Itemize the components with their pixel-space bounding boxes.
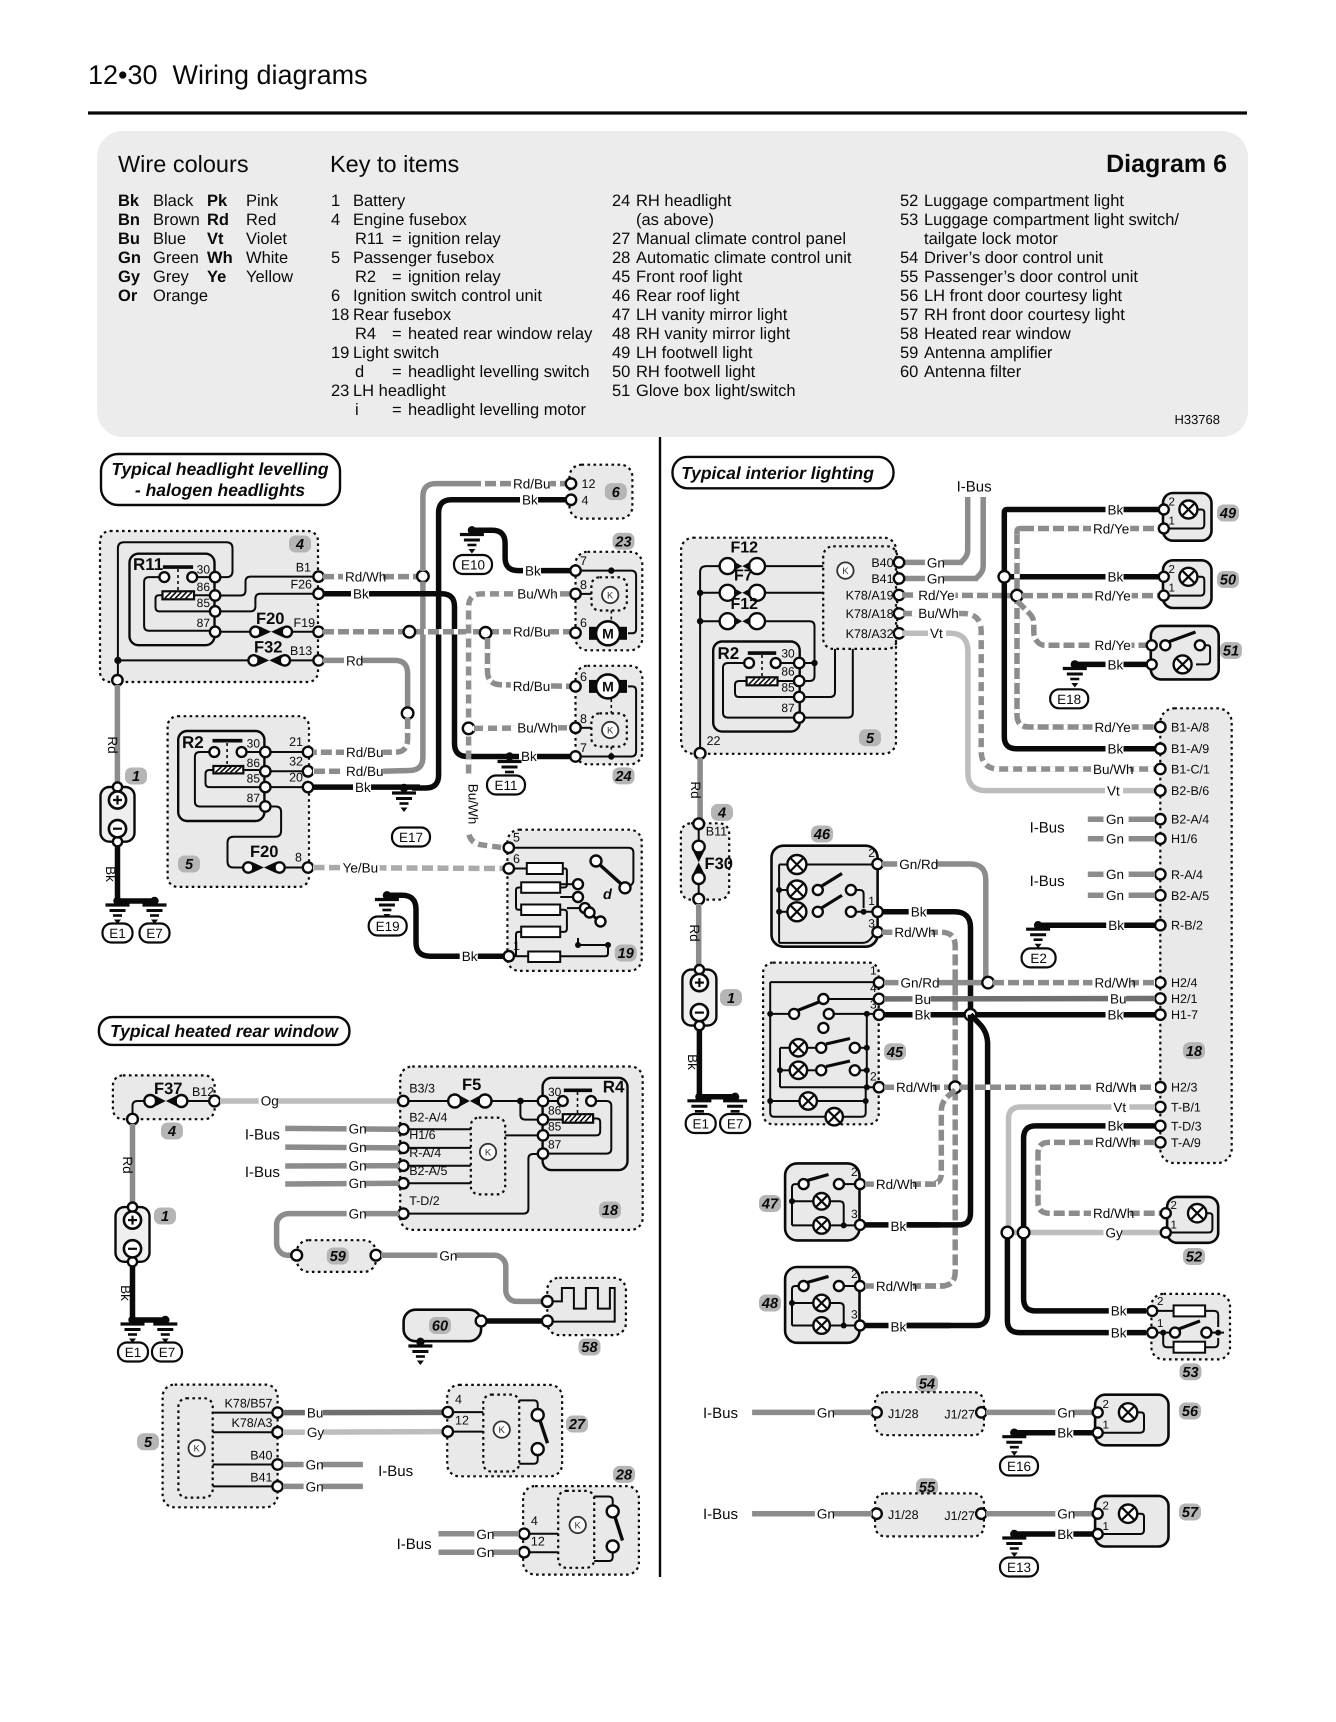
wire B3/3 to F5 <box>408 1100 448 1102</box>
RH vanity mirror light 48 <box>785 1267 859 1343</box>
svg-text:Gn: Gn <box>1106 888 1124 903</box>
label Rd/Ye 49 <box>1091 521 1130 537</box>
svg-text:E11: E11 <box>494 778 517 793</box>
ground bar il <box>695 1093 739 1101</box>
svg-text:Bu: Bu <box>915 992 932 1007</box>
svg-text:F32: F32 <box>254 639 282 657</box>
ground link bar <box>113 897 158 905</box>
wire Gn B2-A/5 <box>285 1181 399 1187</box>
svg-text:4: 4 <box>167 1124 176 1140</box>
badge 57 <box>1179 1504 1201 1522</box>
wire Bk TD3 trunk <box>1024 1126 1155 1228</box>
label Rd il 2 <box>687 924 702 941</box>
pin T-D/2 <box>398 1194 440 1219</box>
pin 8 <box>303 862 313 872</box>
svg-text:E17: E17 <box>399 830 423 845</box>
courtesy light 56 <box>1095 1395 1168 1446</box>
svg-text:Pk: Pk <box>207 192 228 210</box>
roof 45 rail <box>767 982 773 1104</box>
wire pin87 to F20 <box>219 631 250 633</box>
wire F20b to pin 8 <box>285 867 303 869</box>
svg-text:LH footwell light: LH footwell light <box>636 344 753 362</box>
wire Gn H1/6 <box>285 1144 399 1150</box>
svg-text:E7: E7 <box>159 1345 176 1360</box>
svg-text:5: 5 <box>185 857 194 873</box>
53 resistor bottom <box>1163 1333 1218 1353</box>
relay R2 contact terminals <box>209 747 246 757</box>
wire 28 pin4 to K <box>528 1533 558 1535</box>
legend heading wire colours <box>118 151 249 177</box>
svg-text:Typical heated rear window: Typical heated rear window <box>110 1021 339 1041</box>
svg-text:LH front door courtesy light: LH front door courtesy light <box>924 287 1123 305</box>
svg-text:White: White <box>246 249 288 267</box>
wire Rd/Bu into pin 32 <box>313 769 385 775</box>
svg-text:3: 3 <box>851 1308 858 1322</box>
wire B2-A/5 line <box>408 1182 471 1184</box>
svg-text:28: 28 <box>615 1468 633 1484</box>
label Gn 55 out <box>1055 1507 1075 1523</box>
svg-text:Gn: Gn <box>817 1507 835 1522</box>
svg-text:5: 5 <box>513 831 520 845</box>
roof 45 floating contact <box>818 1023 828 1033</box>
badge 54 <box>916 1375 938 1393</box>
svg-text:2: 2 <box>1169 497 1175 509</box>
label Rd <box>344 653 363 669</box>
switch 47 <box>789 1175 856 1226</box>
pin 2 46 <box>868 846 883 869</box>
svg-text:4: 4 <box>582 493 589 507</box>
roof 45 mid contact <box>824 1009 873 1019</box>
pin 2 52 <box>1161 1200 1177 1218</box>
svg-text:87: 87 <box>548 1138 562 1152</box>
wire Rd/Ye row <box>902 592 1010 598</box>
svg-text:2: 2 <box>868 846 875 860</box>
pin 2 53 <box>1147 1296 1163 1316</box>
pin 1 56 <box>1093 1420 1109 1438</box>
svg-text:ignition relay: ignition relay <box>408 268 501 286</box>
badge 48 <box>759 1295 781 1313</box>
light switch 19 <box>507 830 641 971</box>
svg-text:2: 2 <box>851 1267 858 1281</box>
badge 58 <box>579 1339 601 1357</box>
svg-text:B2-B/6: B2-B/6 <box>1171 784 1209 798</box>
wire R2-87 to fuse F20b <box>228 807 282 868</box>
key column 2 <box>612 192 852 400</box>
label Bk vertical <box>103 866 118 882</box>
svg-text:Bk: Bk <box>353 587 369 602</box>
wire RdYe trunk <box>1017 533 1155 727</box>
wire Bk trunk BK1 low <box>900 1015 971 1225</box>
K module 27 <box>483 1395 519 1472</box>
relay R2 il contact bar <box>748 651 776 655</box>
wire K to K78/B57 <box>213 1412 273 1414</box>
label Gn 54 in <box>815 1405 835 1421</box>
luggage light switch 53 <box>1151 1294 1230 1360</box>
lamp 52 <box>1188 1204 1206 1222</box>
junction RdYe 50 <box>1011 590 1023 602</box>
wire Gn/Rd 45 pin1 <box>884 980 983 986</box>
ground symbol E7 <box>143 905 167 924</box>
K module 28 <box>558 1491 594 1568</box>
pin B41 hrw <box>250 1470 283 1491</box>
label Bu/Wh B1C1 <box>1091 762 1134 778</box>
wire colour table <box>118 192 293 305</box>
label I-Bus mid2 <box>1030 873 1065 890</box>
label Gn 28-4 <box>474 1527 494 1543</box>
pin R-B/2 <box>1155 919 1203 933</box>
badge 60 <box>429 1317 451 1335</box>
svg-text:I-Bus: I-Bus <box>957 479 992 496</box>
wire 27 pin4 to K <box>452 1411 483 1413</box>
relay R4 box <box>543 1077 628 1170</box>
light switch resistor 3 <box>521 905 560 916</box>
ground dot E18 <box>1071 660 1079 668</box>
pin K78/A18 <box>846 607 905 621</box>
pin B1-C/1 <box>1155 763 1210 777</box>
svg-text:2: 2 <box>1103 1399 1109 1411</box>
pin K78/B57 <box>225 1397 283 1418</box>
ignition switch control unit 6 <box>570 465 633 519</box>
svg-text:I-Bus: I-Bus <box>1030 819 1065 836</box>
label Gn 4 <box>347 1176 367 1192</box>
connector Vt-Gy <box>1002 1227 1014 1239</box>
rear fusebox 18 il <box>1160 708 1231 1163</box>
svg-text:LH vanity mirror light: LH vanity mirror light <box>636 306 788 324</box>
svg-text:Rd: Rd <box>120 1156 135 1173</box>
wire Bk trunk49 <box>1004 515 1155 749</box>
svg-text:H2/3: H2/3 <box>1171 1081 1197 1095</box>
svg-text:B13: B13 <box>290 644 312 658</box>
svg-text:4: 4 <box>531 1514 538 1528</box>
badge 45 <box>884 1043 906 1061</box>
svg-text:6: 6 <box>612 485 621 501</box>
label Gn 3 <box>347 1159 367 1175</box>
RH headlight 24 <box>576 666 643 765</box>
label Rd il <box>688 781 703 798</box>
svg-text:RH front door courtesy light: RH front door courtesy light <box>924 306 1125 324</box>
battery 1 hrw <box>116 1203 150 1267</box>
wire Bk E10 to box23 pin7 <box>472 530 570 570</box>
wire K to B41 <box>213 1485 273 1487</box>
badge 46 <box>811 826 833 844</box>
svg-text:B41: B41 <box>250 1470 272 1484</box>
svg-text:I-Bus: I-Bus <box>397 1536 432 1553</box>
pin 7 hl23 <box>570 554 587 576</box>
wire Rd hrw <box>130 1124 136 1205</box>
label Rd/Ye 50 <box>1093 589 1132 605</box>
svg-text:Key to items: Key to items <box>330 151 459 177</box>
pin 7 hl24 <box>570 741 587 762</box>
label Bk 53-1 <box>1109 1326 1127 1342</box>
svg-text:Violet: Violet <box>246 230 287 248</box>
wire Rd/Bu F19 to box23 pin6 <box>323 629 570 635</box>
svg-text:Vt: Vt <box>930 626 943 641</box>
relay R2 il pin 86 <box>781 665 804 687</box>
svg-text:56: 56 <box>900 287 918 305</box>
label Bu/Wh 24-8 <box>515 721 558 737</box>
svg-text:Front roof light: Front roof light <box>636 268 743 286</box>
svg-text:18: 18 <box>331 306 349 324</box>
label I-Bus mid1 <box>1030 819 1065 836</box>
svg-text:Rd: Rd <box>688 781 703 798</box>
svg-text:Gn: Gn <box>349 1159 367 1174</box>
badge 53 <box>1180 1363 1202 1381</box>
svg-text:K: K <box>607 726 614 737</box>
svg-text:J1/28: J1/28 <box>888 1508 919 1522</box>
badge 23 <box>613 533 635 551</box>
svg-text:d: d <box>355 363 364 381</box>
svg-text:Gn: Gn <box>349 1206 367 1221</box>
svg-text:RH vanity mirror light: RH vanity mirror light <box>636 325 790 343</box>
svg-text:Ignition switch control unit: Ignition switch control unit <box>353 287 542 305</box>
svg-text:6: 6 <box>580 616 587 630</box>
badge 1 battery <box>125 768 147 786</box>
relay R2 contact bar <box>213 739 243 743</box>
wire Bk battery to ground <box>115 846 121 901</box>
junction Bk45 <box>965 1009 977 1021</box>
label Gn T-D/2 <box>347 1206 367 1222</box>
wire Rd battery feed <box>115 685 121 787</box>
label Vt K78 <box>928 626 946 642</box>
label Gn/Rd 46 <box>897 857 938 873</box>
antenna amplifier 59 <box>297 1240 376 1272</box>
badge 18 hrw <box>599 1202 621 1220</box>
light switch contacts <box>573 879 590 913</box>
pin B40 il <box>871 556 904 570</box>
roof 45 lampB <box>790 1061 867 1079</box>
wire Bk trunk BK2 <box>905 1015 988 1326</box>
wire Rd B13 to hook <box>323 660 408 708</box>
svg-text:Rd/Ye: Rd/Ye <box>1095 720 1131 735</box>
svg-text:Bk: Bk <box>462 949 478 964</box>
relay R2 pin 86 <box>247 756 271 777</box>
svg-text:Gn: Gn <box>306 1479 324 1494</box>
svg-text:Bk: Bk <box>1108 742 1124 757</box>
roof 46 lamps <box>787 855 806 921</box>
svg-text:F5: F5 <box>462 1076 481 1094</box>
pin F19 <box>313 627 323 637</box>
wire Gn 55 out <box>986 1511 1093 1517</box>
label Bk 20 <box>353 780 371 796</box>
svg-text:B1-A/8: B1-A/8 <box>1171 721 1209 735</box>
wire pin85 to F26 <box>219 594 314 612</box>
svg-text:Gn: Gn <box>817 1405 835 1420</box>
svg-text:Bk: Bk <box>525 564 541 579</box>
wire F20 to F19 pin <box>292 631 314 633</box>
lamp 57 <box>1119 1505 1137 1523</box>
fuse F5 <box>448 1076 491 1108</box>
svg-text:B41: B41 <box>871 572 893 586</box>
svg-text:E2: E2 <box>1030 951 1047 966</box>
badge E7 <box>140 924 170 943</box>
wire Vt TB1 <box>1009 1107 1156 1228</box>
svg-text:Rd/Ye: Rd/Ye <box>1095 589 1131 604</box>
relay R4 coil <box>563 1114 593 1123</box>
passenger fusebox 5 <box>168 716 309 887</box>
badge 28 <box>613 1466 635 1484</box>
wire Gn 54 in <box>752 1410 872 1416</box>
wire Gn/Rd 46 <box>882 864 986 980</box>
pin H2/1 <box>1155 992 1197 1006</box>
label Bk RB2 <box>1106 918 1124 934</box>
svg-text:2: 2 <box>870 1070 877 1084</box>
svg-text:53: 53 <box>1182 1365 1198 1381</box>
svg-text:Ye/Bu: Ye/Bu <box>343 861 379 876</box>
pin 20 <box>289 771 313 793</box>
label Rd/Bu 32 <box>344 764 384 780</box>
svg-text:Bu: Bu <box>1110 991 1127 1006</box>
svg-text:H1-7: H1-7 <box>1171 1008 1198 1022</box>
pin 2 45 <box>870 1070 884 1093</box>
svg-text:=: = <box>392 325 402 343</box>
svg-text:Gn: Gn <box>927 571 945 586</box>
relay R2 pin 30 <box>247 737 271 758</box>
relay R4 contact dashes <box>577 1092 579 1114</box>
pin 58 bottom <box>542 1316 553 1327</box>
wire Rd/Wh 46 <box>882 932 955 1286</box>
svg-text:86: 86 <box>197 580 211 594</box>
svg-text:4: 4 <box>870 981 877 995</box>
driver door control unit 54 <box>875 1392 984 1435</box>
svg-text:46: 46 <box>612 287 630 305</box>
pin B41 il <box>871 572 904 586</box>
svg-text:Vt: Vt <box>207 230 224 248</box>
label I-Bus 27 <box>378 1463 413 1480</box>
badge E17 <box>392 828 430 847</box>
relay R4 internal wiring <box>548 1101 611 1154</box>
badge E19 <box>369 917 407 936</box>
relay R11 pin 87 <box>197 616 221 637</box>
label Gn 28-12 <box>474 1545 494 1561</box>
relay R11 contact bar <box>163 565 193 569</box>
svg-text:Bk: Bk <box>118 1285 133 1301</box>
svg-text:Ye: Ye <box>207 268 226 286</box>
wire F5 branch to 86 <box>520 1101 538 1120</box>
relay R2 pin 87 <box>247 791 271 812</box>
pin 4 cc27 <box>443 1392 462 1417</box>
svg-text:45: 45 <box>886 1045 904 1061</box>
pin 4 cc28 <box>519 1514 538 1539</box>
svg-text:60: 60 <box>900 363 918 381</box>
pin T-A/9 <box>1155 1136 1201 1150</box>
relay R2 il terminals <box>744 658 780 668</box>
label Rd/Bu ign <box>511 476 551 492</box>
light switch resistor 4 <box>521 927 560 938</box>
svg-text:24: 24 <box>614 769 631 785</box>
ground symbol E16 <box>1002 1437 1026 1456</box>
svg-text:5: 5 <box>866 731 875 747</box>
label Rd/Bu 21 <box>344 745 384 761</box>
wire Rd riser to ign unit <box>423 484 470 571</box>
svg-text:Gn: Gn <box>349 1140 367 1155</box>
relay R11 contact terminals <box>159 572 197 582</box>
wire feed to F32 <box>118 659 249 661</box>
battery 1 <box>101 782 135 846</box>
badge 5 passenger fusebox <box>178 856 200 874</box>
svg-text:47: 47 <box>761 1197 779 1213</box>
fuse F30 <box>693 828 733 895</box>
svg-text:Passenger fusebox: Passenger fusebox <box>353 249 495 267</box>
wire Rd/Bu into pin 12 <box>470 481 566 487</box>
pin 2 50 <box>1159 564 1175 582</box>
svg-text:Gn: Gn <box>1057 1405 1075 1420</box>
svg-text:Bu: Bu <box>118 230 140 248</box>
svg-text:Gn/Rd: Gn/Rd <box>901 976 940 991</box>
lamp 51 <box>1174 655 1192 673</box>
label I-Bus top <box>957 479 992 496</box>
junction RdBu col1 <box>404 626 416 638</box>
wire R2-30 to pin 21 <box>270 751 303 753</box>
svg-text:52: 52 <box>1186 1250 1202 1266</box>
automatic climate control unit 28 <box>523 1486 639 1575</box>
label Gy 27 <box>305 1425 325 1441</box>
relay R2 il pin 87 <box>781 701 804 723</box>
svg-text:28: 28 <box>612 249 630 267</box>
wire Gn stub 1 <box>1088 812 1155 828</box>
relay R2 pin 85 <box>247 772 271 793</box>
connector B11 <box>693 818 727 838</box>
svg-text:19: 19 <box>618 946 634 962</box>
svg-text:Gn: Gn <box>1057 1507 1075 1522</box>
label Gn 54 out <box>1055 1405 1075 1421</box>
svg-text:Rd/Ye: Rd/Ye <box>1095 638 1131 653</box>
svg-text:R2: R2 <box>182 733 204 752</box>
label Bk 24-7 <box>519 749 537 765</box>
wire Rd il 2 <box>696 904 702 968</box>
svg-text:Gy: Gy <box>307 1425 325 1440</box>
svg-text:Automatic climate control unit: Automatic climate control unit <box>636 249 852 267</box>
ground symbol E17 <box>392 793 416 812</box>
svg-text:50: 50 <box>612 363 630 381</box>
pin B3/3 <box>398 1081 435 1106</box>
label Gn/Rd 45 <box>899 976 940 992</box>
wire F37 left elbow <box>133 1101 145 1115</box>
svg-text:30: 30 <box>197 563 211 577</box>
svg-text:6: 6 <box>513 852 520 866</box>
svg-text:Bk: Bk <box>1108 657 1124 672</box>
badge 59 <box>327 1248 349 1266</box>
53 resistor top <box>1157 1305 1218 1327</box>
fuse F20 passenger <box>243 843 302 873</box>
svg-text:87: 87 <box>781 701 795 715</box>
svg-text:Wh: Wh <box>207 249 233 267</box>
svg-text:1: 1 <box>132 769 140 785</box>
engine fusebox 4 il <box>681 823 729 899</box>
svg-text:57: 57 <box>1182 1505 1199 1521</box>
badge E11 <box>487 776 525 795</box>
ground symbol E7 il <box>723 1101 747 1120</box>
wire F7 to K <box>766 592 823 594</box>
pin 3 46 <box>868 917 883 938</box>
label Bu/Wh vertical <box>461 775 481 833</box>
pin F26 <box>290 578 323 599</box>
svg-text:Luggage compartment light: Luggage compartment light <box>924 192 1124 210</box>
connector Rd-RdBu <box>402 707 414 719</box>
wire 27 pin12 to K <box>452 1431 483 1433</box>
svg-text:I-Bus: I-Bus <box>378 1463 413 1480</box>
pin 8 hl23 <box>570 578 587 599</box>
badge 49 <box>1217 505 1239 523</box>
wire Gy to 27 <box>283 1429 443 1435</box>
svg-text:19: 19 <box>331 344 349 362</box>
wire F12b to R2 <box>766 621 818 681</box>
svg-text:Or: Or <box>118 287 138 305</box>
relay R11 contact dashes <box>177 569 179 591</box>
svg-text:LH headlight: LH headlight <box>353 382 446 400</box>
lamp 57 internal <box>1102 1514 1144 1534</box>
svg-text:Bn: Bn <box>118 211 140 229</box>
svg-text:Vt: Vt <box>1113 1100 1126 1115</box>
